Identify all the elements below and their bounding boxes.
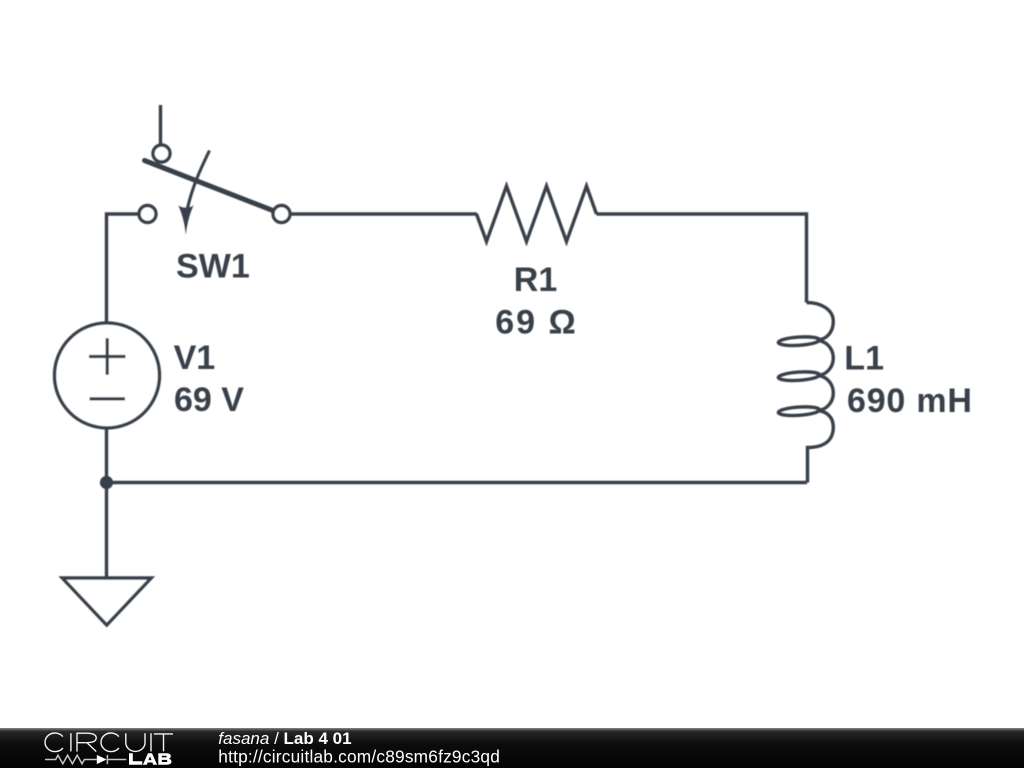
switch SW1 terminal right: [273, 206, 290, 223]
switch SW1 terminal left: [139, 206, 156, 223]
svg-text:fasana / Lab 4 01: fasana / Lab 4 01: [218, 729, 351, 748]
svg-text:L1: L1: [844, 339, 884, 377]
svg-text:http://circuitlab.com/c89sm6fz: http://circuitlab.com/c89sm6fz9c3qd: [218, 746, 500, 766]
V1 minus sign: [90, 397, 125, 400]
svg-text:69 Ω: 69 Ω: [495, 304, 578, 342]
svg-text:R1: R1: [514, 261, 557, 299]
svg-text:SW1: SW1: [176, 247, 250, 285]
wire node to ground: [105, 483, 108, 579]
wire switch right to resistor: [290, 212, 477, 215]
node junction dot: [100, 476, 113, 489]
V1 plus sign: [89, 338, 126, 375]
ground symbol: [62, 578, 151, 625]
resistor R1: [477, 186, 597, 242]
switch SW1 terminal top: [153, 145, 170, 162]
switch SW1 lever: [145, 161, 275, 212]
CircuitLab logo LAB: [129, 753, 172, 765]
wire switch top stub: [159, 105, 162, 144]
svg-text:690 mH: 690 mH: [847, 382, 973, 420]
svg-text:V1: V1: [174, 339, 216, 377]
wire resistor to top-right corner and down: [597, 214, 807, 303]
svg-text:69 V: 69 V: [174, 381, 244, 419]
wire bottom net: [107, 481, 808, 484]
wire V1 bottom to node: [105, 428, 108, 483]
wire left circle to left corner and down to V1: [107, 214, 140, 323]
CircuitLab logo CIRCUIT: [45, 733, 173, 752]
CircuitLab logo squiggle resistor-diode: [45, 755, 126, 764]
switch SW1 actuation arrow: [187, 151, 209, 210]
inductor L1 coil: [807, 303, 834, 341]
voltage source V1: [55, 323, 160, 428]
